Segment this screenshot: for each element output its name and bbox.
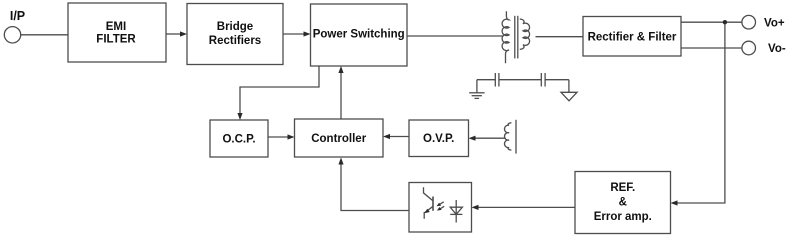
arrowhead into O.C.P. top bbox=[237, 113, 242, 120]
svg-text:Rectifier & Filter: Rectifier & Filter bbox=[588, 31, 677, 43]
light ray 2 bbox=[439, 206, 444, 209]
transformer T1 secondary winding bbox=[520, 19, 530, 49]
svg-text:O.V.P.: O.V.P. bbox=[423, 133, 454, 145]
phototransistor Q1 base bar bbox=[432, 197, 434, 211]
arrowhead into Bridge Rectifiers bbox=[180, 31, 187, 36]
junction dot on Vo+ rail bbox=[723, 20, 727, 24]
svg-text:I/P: I/P bbox=[10, 9, 25, 23]
arrowhead into O.V.P. right bbox=[469, 136, 476, 141]
terminal I/P bbox=[4, 27, 20, 43]
earth ground bbox=[469, 92, 484, 94]
arrowhead into Controller bottom bbox=[338, 158, 343, 165]
optocoupler U1 box bbox=[409, 183, 472, 233]
capacitor C2 plates bbox=[540, 73, 542, 87]
arrowhead into Controller left bbox=[288, 134, 295, 139]
aux winding L1 bbox=[504, 123, 511, 150]
wire O.C.P. to Controller bbox=[268, 136, 289, 138]
svg-text:Vo-: Vo- bbox=[768, 43, 786, 55]
svg-text:O.C.P.: O.C.P. bbox=[222, 133, 255, 145]
capacitor C1 plates bbox=[494, 73, 496, 87]
light ray 1 bbox=[439, 202, 444, 205]
block Power Switching bbox=[311, 4, 408, 66]
LED D1 vertical lead bbox=[455, 200, 457, 223]
wire between C1 and C2 bbox=[499, 79, 541, 81]
wire down to earth ground bbox=[476, 80, 478, 93]
wire Vo+ output bbox=[681, 21, 742, 23]
phototransistor Q1 collector lead bbox=[424, 187, 434, 201]
block EMI FILTER bbox=[68, 3, 166, 62]
wire feedback rail from Vo+ node down to REF block bbox=[677, 22, 725, 203]
terminal Vo- bbox=[742, 41, 756, 55]
arrowhead into Controller right bbox=[383, 134, 390, 139]
wire O.V.P. to Controller bbox=[389, 136, 409, 138]
block O.V.P. bbox=[409, 120, 469, 157]
svg-text:Power Switching: Power Switching bbox=[313, 29, 405, 41]
block Bridge Rectifiers bbox=[187, 4, 283, 65]
svg-text:Error amp.: Error amp. bbox=[594, 211, 652, 223]
block REF & Error amp bbox=[575, 172, 671, 234]
block Controller bbox=[295, 119, 384, 157]
wire REF to optocoupler bbox=[478, 206, 575, 208]
light ray arrowhead 1 bbox=[437, 203, 442, 207]
wire snubber network bbox=[477, 79, 495, 81]
wire EMI to Bridge bbox=[166, 33, 181, 35]
light ray arrowhead 2 bbox=[437, 207, 442, 211]
aux winding core bbox=[515, 120, 517, 154]
svg-text:Rectifiers: Rectifiers bbox=[209, 35, 261, 47]
wire input to EMI FILTER bbox=[21, 34, 68, 36]
wire transformer to Rectifier & Filter bbox=[536, 36, 584, 38]
svg-text:FILTER: FILTER bbox=[96, 34, 136, 46]
transformer T1 core bbox=[514, 16, 516, 59]
LED D1 triangle bbox=[450, 207, 462, 214]
svg-text:REF.: REF. bbox=[610, 182, 635, 194]
svg-text:EMI: EMI bbox=[106, 21, 126, 33]
arrowhead into Power Switching bottom bbox=[338, 66, 343, 73]
svg-text:Controller: Controller bbox=[311, 133, 366, 145]
block O.C.P. bbox=[210, 120, 268, 157]
wire optocoupler to Controller bbox=[341, 164, 409, 211]
phototransistor emitter arrowhead bbox=[425, 209, 430, 213]
terminal Vo+ bbox=[742, 15, 756, 29]
wire down to chassis ground bbox=[568, 80, 570, 93]
arrowhead into REF & Error amp bbox=[671, 200, 678, 205]
wire Power Switching to O.C.P. bbox=[240, 66, 319, 114]
arrowhead into optocoupler bbox=[472, 205, 479, 210]
phototransistor Q1 emitter lead bbox=[424, 206, 433, 219]
transformer T1 primary winding bbox=[502, 11, 509, 63]
wire Controller to Power Switching bbox=[340, 72, 342, 119]
svg-text:Vo+: Vo+ bbox=[764, 17, 785, 29]
wire Vo- output bbox=[681, 47, 742, 49]
arrowhead into Power Switching bbox=[304, 31, 311, 36]
wire aux winding to O.V.P. bbox=[475, 137, 505, 139]
wire C2 to chassis ground bbox=[545, 79, 569, 81]
svg-text:Bridge: Bridge bbox=[217, 21, 253, 33]
chassis ground bbox=[561, 92, 577, 101]
block Rectifier & Filter bbox=[583, 17, 681, 57]
wire Bridge to Power Switching bbox=[283, 33, 304, 35]
LED D1 cathode bar bbox=[450, 213, 462, 215]
wire Power Switching to transformer T1 bbox=[407, 35, 503, 37]
svg-text:&: & bbox=[619, 196, 627, 208]
